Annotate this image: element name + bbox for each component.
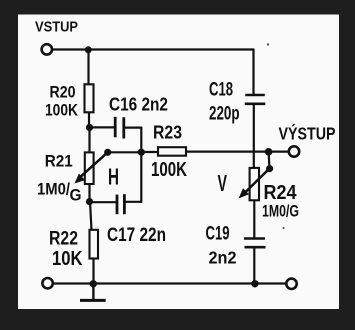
potentiometer R24 xyxy=(239,168,270,200)
svg-text:C18: C18 xyxy=(209,79,233,101)
svg-text:C17 22n: C17 22n xyxy=(107,224,166,246)
svg-text:R23: R23 xyxy=(153,121,182,142)
wire R23 to output xyxy=(186,151,288,153)
capacitor C17 xyxy=(117,194,124,214)
wire R22 to bottom rail xyxy=(92,259,94,284)
ground xyxy=(80,284,106,301)
junction R21 wiper xyxy=(104,149,111,156)
junction node C xyxy=(86,198,93,205)
resistor R23 xyxy=(158,147,186,156)
svg-text:R21: R21 xyxy=(45,152,73,171)
resistor R22 xyxy=(90,230,99,259)
svg-text:H: H xyxy=(108,164,119,190)
junction R24 wiper xyxy=(266,165,273,172)
potentiometer R21 xyxy=(75,152,108,184)
wire node C to C17 xyxy=(90,201,116,203)
speck xyxy=(267,43,269,45)
junction node G xyxy=(251,280,258,287)
svg-text:C16 2n2: C16 2n2 xyxy=(109,94,168,115)
svg-text:220p: 220p xyxy=(209,104,240,125)
wire R24 to C19 xyxy=(253,201,255,239)
capacitor C18 xyxy=(245,95,265,104)
wire node E to R24 wiper xyxy=(268,152,271,169)
wire C18 drop xyxy=(252,50,254,95)
junction node D xyxy=(90,280,97,287)
capacitor C19 xyxy=(244,239,266,248)
junction right branch mid xyxy=(138,149,145,156)
wire node B to C16 xyxy=(90,126,115,128)
svg-text:2n2: 2n2 xyxy=(209,248,237,268)
junction node B xyxy=(86,124,93,131)
wire right branch vertical xyxy=(140,128,142,202)
wire R20 to node B xyxy=(88,112,90,128)
junction node A xyxy=(85,46,92,53)
wire left rail R21 section xyxy=(88,127,90,152)
svg-text:VÝSTUP: VÝSTUP xyxy=(279,122,336,143)
junction node E output xyxy=(265,148,273,156)
svg-text:C19: C19 xyxy=(206,224,230,245)
terminal VSTUP xyxy=(42,44,52,54)
wire R21 to node C xyxy=(88,184,90,202)
wire wiper to right branch xyxy=(108,151,142,153)
capacitor C16 xyxy=(115,117,124,139)
wire left rail upper xyxy=(87,50,89,85)
svg-text:R20: R20 xyxy=(50,82,76,101)
svg-text:100K: 100K xyxy=(151,159,187,181)
svg-text:1M0/G: 1M0/G xyxy=(262,202,299,221)
svg-text:100K: 100K xyxy=(45,101,79,120)
wire top rail xyxy=(53,48,254,50)
terminal bottom right xyxy=(286,279,296,289)
wire C16 to right branch xyxy=(125,126,141,128)
wire bottom rail xyxy=(53,282,286,284)
wire mid to R23 xyxy=(141,151,158,153)
wire C18 to R24 xyxy=(253,104,255,168)
svg-text:V: V xyxy=(218,170,228,196)
terminal bottom left xyxy=(42,278,52,288)
terminal VYSTUP xyxy=(289,146,299,156)
wire C17 to right branch xyxy=(125,201,141,203)
resistor R20 xyxy=(85,84,94,112)
wire C19 to bottom rail xyxy=(253,248,255,284)
svg-text:G: G xyxy=(70,187,82,205)
wire node C to R22 xyxy=(90,202,92,231)
svg-text:10K: 10K xyxy=(52,247,83,270)
speck xyxy=(282,227,284,229)
svg-text:VSTUP: VSTUP xyxy=(35,19,78,36)
svg-text:1M0/: 1M0/ xyxy=(37,181,70,199)
